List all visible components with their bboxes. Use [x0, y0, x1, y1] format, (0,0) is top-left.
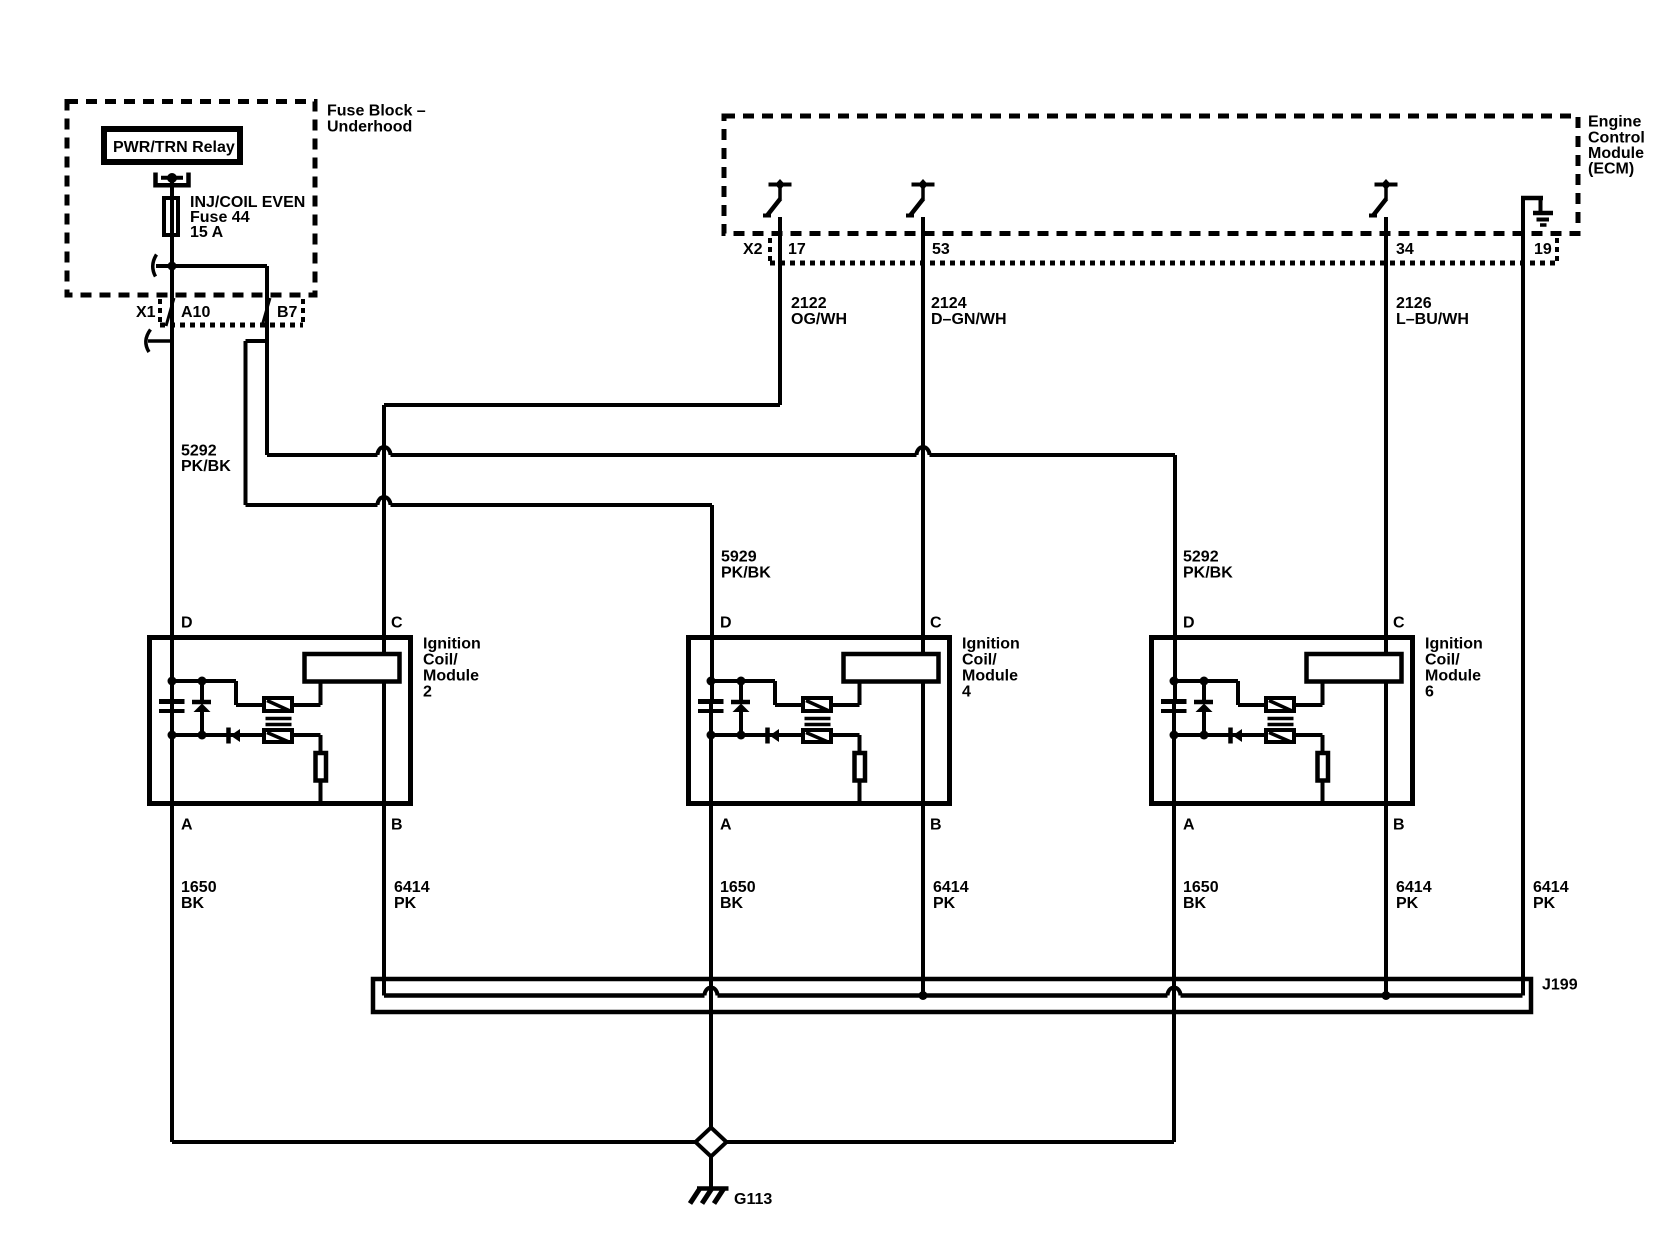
svg-text:X1: X1 — [136, 304, 156, 321]
module 4 upper driver diagonal — [806, 701, 828, 711]
wire module 2 coil to splice (6414 PK) — [382, 681, 386, 996]
wire relay to fuse — [170, 181, 174, 198]
svg-text:Module: Module — [1425, 668, 1481, 685]
module 2 lower driver box — [264, 730, 292, 742]
module 4 title — [962, 636, 1020, 701]
module 2 lower driver diagonal — [267, 733, 289, 743]
module 6 lower driver diagonal — [1269, 733, 1291, 743]
bus hop over module 4 ground wire — [705, 988, 718, 996]
svg-text:6: 6 — [1425, 684, 1434, 701]
svg-text:4: 4 — [962, 684, 971, 701]
module 4 isolation bars — [805, 719, 831, 725]
module 6 wire up to coil block — [1321, 683, 1325, 705]
svg-text:PK: PK — [1396, 895, 1419, 912]
module 4 bottom internal wire — [711, 733, 801, 737]
wire hop over 2122 (lower) — [378, 497, 391, 505]
module 6 zener diode — [1194, 679, 1213, 735]
wire hop over 2124 — [917, 447, 930, 455]
module 2 title — [423, 636, 481, 701]
wire 6414 from pin 19 down to splice pack — [1521, 198, 1525, 996]
module 2 capacitor — [159, 702, 185, 712]
connector X2 strip dotted bottom — [770, 261, 1557, 266]
svg-text:Module: Module — [423, 668, 479, 685]
svg-text:Coil/: Coil/ — [1425, 652, 1460, 669]
module 4 capacitor — [698, 702, 724, 712]
module 6 internal D/A line lower — [1172, 713, 1176, 804]
svg-text:PK/BK: PK/BK — [721, 565, 771, 582]
module 6 junction dot zener bottom — [1200, 731, 1209, 740]
module 4 lower driver diagonal — [806, 733, 828, 743]
module 6 bottom internal wire — [1174, 733, 1264, 737]
wire B7 down to 5292 branch — [265, 266, 269, 455]
wire 1650 module 2 pin A down to ground run — [170, 699, 174, 1142]
module 2 coil winding block — [305, 654, 400, 682]
ignition coil/module 4 box — [689, 638, 950, 804]
svg-text:A: A — [181, 817, 193, 834]
module 4 junction dot bottom-left — [707, 731, 716, 740]
svg-text:17: 17 — [788, 241, 806, 258]
module 2 diode — [229, 728, 241, 744]
wire 5929 horizontal run to module 4 D — [246, 503, 378, 507]
module 4 wire up to coil block — [858, 683, 862, 705]
terminal slash at pin B7 — [262, 298, 270, 326]
svg-text:X2: X2 — [743, 241, 763, 258]
junction dot below fuse — [168, 262, 177, 271]
module 4 junction dot zener top — [737, 677, 746, 686]
bus hop over module 6 ground wire — [1168, 988, 1181, 996]
wire 5292 down to module 6 pin D (upper) — [1173, 455, 1177, 699]
module 2 junction dot zener bottom — [198, 731, 207, 740]
module 6 wire upper driver to coil — [1296, 703, 1323, 707]
svg-text:2: 2 — [423, 684, 432, 701]
ignition coil/module 6 box — [1152, 638, 1413, 804]
module 4 step wire down — [773, 681, 777, 705]
module 6 capacitor — [1161, 702, 1187, 712]
wire fuse to junction (passes through fuse) — [170, 198, 174, 266]
module 6 upper driver box — [1266, 698, 1294, 711]
module 4 junction dot zener bottom — [737, 731, 746, 740]
svg-text:6414: 6414 — [1533, 879, 1569, 896]
wire 5929 branch down — [244, 341, 248, 505]
svg-text:Fuse Block –: Fuse Block – — [327, 103, 426, 120]
module 2 top internal wire — [172, 679, 236, 683]
module 4 zener diode — [731, 679, 750, 735]
module 4 junction dot D-top-left — [707, 677, 716, 686]
module 6 upper driver diagonal — [1269, 701, 1291, 711]
svg-text:Ignition: Ignition — [1425, 636, 1483, 653]
wire B7 jog branch — [246, 339, 268, 343]
module 4 top internal wire — [711, 679, 775, 683]
module 2 junction dot D-top-left — [168, 677, 177, 686]
module 6 lower driver box — [1266, 730, 1294, 742]
wire A10 down to module 2 pin D (upper) — [170, 266, 174, 699]
svg-text:C: C — [391, 615, 403, 632]
svg-text:Ignition: Ignition — [423, 636, 481, 653]
module 4 lower driver box — [803, 730, 831, 742]
bus junction dot module 4 B — [919, 991, 928, 1000]
svg-text:6414: 6414 — [1396, 879, 1432, 896]
engine control module (ECM) dashed box — [724, 116, 1578, 234]
module 2 upper driver box — [264, 698, 292, 711]
svg-text:A10: A10 — [181, 304, 210, 321]
module 2 wire to resistor — [319, 735, 323, 753]
relay output terminal symbol — [156, 173, 189, 186]
svg-text:Coil/: Coil/ — [423, 652, 458, 669]
terminal clip at junction wire end — [153, 255, 157, 277]
wire hop over 2122 — [378, 447, 391, 455]
module 6 junction dot zener top — [1200, 677, 1209, 686]
splice pack J199 outline — [373, 979, 1531, 1012]
ground run wire left — [172, 1140, 696, 1144]
wire 5292 horizontal run to module 6 D — [267, 453, 378, 457]
svg-text:B: B — [1393, 817, 1405, 834]
module 2 junction dot zener top — [198, 677, 207, 686]
svg-text:G113: G113 — [734, 1191, 772, 1208]
svg-text:A: A — [720, 817, 732, 834]
wire 1650 module 6 pin A down to ground run — [1172, 699, 1176, 1142]
module 6 junction dot D-top-left — [1170, 677, 1179, 686]
connector X2 strip left edge — [768, 238, 772, 263]
svg-text:Engine: Engine — [1588, 114, 1641, 131]
svg-text:Ignition: Ignition — [962, 636, 1020, 653]
svg-text:5292: 5292 — [181, 443, 217, 460]
terminal slash at pin A10 — [166, 298, 174, 326]
wire 2122 horizontal — [384, 403, 780, 407]
connector X1 strip right edge — [301, 299, 305, 325]
PWR/TRN Relay box — [104, 129, 240, 162]
svg-text:2122: 2122 — [791, 295, 827, 312]
module 6 diode — [1231, 728, 1243, 744]
module 2 bottom internal wire — [172, 733, 262, 737]
ECM driver for pin 34 — [1369, 179, 1398, 216]
module 6 top internal wire — [1174, 679, 1238, 683]
module 2 zener diode — [192, 679, 211, 735]
splice pack J199 internal bus — [384, 993, 705, 998]
module 2 isolation bars — [266, 719, 292, 725]
module 4 wire into upper driver — [775, 703, 801, 707]
module 6 coil winding block — [1307, 654, 1402, 682]
bus junction dot module 6 B — [1382, 991, 1391, 1000]
svg-text:19: 19 — [1534, 241, 1552, 258]
svg-text:PK: PK — [394, 895, 417, 912]
svg-text:PK: PK — [933, 895, 956, 912]
module 4 wire upper driver to coil — [833, 703, 860, 707]
svg-text:5292: 5292 — [1183, 549, 1219, 566]
ground run wire right — [727, 1140, 1175, 1144]
module 2 junction dot bottom-left — [168, 731, 177, 740]
svg-text:A: A — [1183, 817, 1195, 834]
svg-text:PWR/TRN Relay: PWR/TRN Relay — [113, 139, 235, 156]
wire 1650 module 4 pin A down to ground diamond — [709, 699, 713, 1128]
ground symbol G113 — [690, 1189, 729, 1204]
svg-text:D: D — [1183, 615, 1195, 632]
svg-text:6414: 6414 — [933, 879, 969, 896]
svg-text:OG/WH: OG/WH — [791, 311, 847, 328]
module 6 wire to resistor — [1321, 735, 1325, 753]
svg-text:BK: BK — [720, 895, 744, 912]
svg-text:Coil/: Coil/ — [962, 652, 997, 669]
svg-text:(ECM): (ECM) — [1588, 161, 1634, 178]
wire 2122 from pin 17 down — [778, 217, 782, 405]
module 6 step wire down — [1236, 681, 1240, 705]
svg-text:53: 53 — [932, 241, 950, 258]
wire module 4 coil to splice (6414 PK) — [921, 681, 925, 996]
terminal clip below pin A10 — [146, 330, 151, 353]
clip tick to A10 wire — [148, 339, 170, 343]
svg-text:Module: Module — [962, 668, 1018, 685]
connector X1 strip left edge — [158, 299, 162, 325]
svg-text:2126: 2126 — [1396, 295, 1432, 312]
svg-text:D–GN/WH: D–GN/WH — [931, 311, 1007, 328]
svg-text:B: B — [930, 817, 942, 834]
module 4 coil winding block — [844, 654, 939, 682]
svg-text:C: C — [930, 615, 942, 632]
svg-text:15 A: 15 A — [190, 224, 224, 241]
module 2 wire up to coil block — [319, 683, 323, 705]
relay terminal dot — [167, 173, 177, 183]
module 2 resistor to case — [319, 781, 323, 805]
module 6 wire into upper driver — [1238, 703, 1264, 707]
svg-text:D: D — [720, 615, 732, 632]
ignition coil/module 2 box — [150, 638, 411, 804]
module 2 step wire down — [234, 681, 238, 705]
module 4 resistor — [855, 753, 866, 781]
svg-text:6414: 6414 — [394, 879, 430, 896]
svg-text:J199: J199 — [1542, 977, 1578, 994]
module 6 junction dot bottom-left — [1170, 731, 1179, 740]
svg-text:C: C — [1393, 615, 1405, 632]
svg-text:L–BU/WH: L–BU/WH — [1396, 311, 1469, 328]
svg-text:2124: 2124 — [931, 295, 967, 312]
svg-text:B7: B7 — [277, 304, 298, 321]
module 2 upper driver diagonal — [267, 701, 289, 711]
wire 2124 from pin 53 down to module 4 pin C — [921, 217, 925, 654]
module 6 resistor — [1318, 753, 1329, 781]
svg-text:B: B — [391, 817, 403, 834]
fuse block - underhood dashed box — [67, 102, 315, 296]
module 6 resistor to case — [1321, 781, 1325, 805]
svg-text:34: 34 — [1396, 241, 1414, 258]
ECM driver for pin 53 — [906, 179, 935, 216]
ECM driver for pin 17 — [763, 179, 792, 216]
wire 2126 from pin 34 down to module 6 pin C — [1384, 217, 1388, 654]
module 4 wire to resistor — [858, 735, 862, 753]
svg-text:Module: Module — [1588, 145, 1644, 162]
module 4 internal D/A line lower — [709, 713, 713, 804]
svg-text:5929: 5929 — [721, 549, 757, 566]
wire 5929 down to module 4 pin D (upper) — [710, 505, 714, 699]
fuse F44 body — [164, 198, 178, 235]
connector X1 strip dotted bottom — [160, 323, 303, 328]
module 4 diode — [768, 728, 780, 744]
svg-text:1650: 1650 — [720, 879, 756, 896]
svg-text:Control: Control — [1588, 130, 1645, 147]
module 6 title — [1425, 636, 1483, 701]
module 2 wire upper driver to coil — [294, 703, 321, 707]
svg-text:BK: BK — [1183, 895, 1207, 912]
module 2 internal D/A line lower — [170, 713, 174, 804]
svg-text:1650: 1650 — [1183, 879, 1219, 896]
module 2 wire lower driver out — [294, 733, 321, 737]
svg-text:BK: BK — [181, 895, 205, 912]
wire module 6 coil to splice (6414 PK) — [1384, 681, 1388, 996]
module 4 upper driver box — [803, 698, 831, 711]
module 4 resistor to case — [858, 781, 862, 805]
svg-text:PK: PK — [1533, 895, 1556, 912]
module 4 wire lower driver out — [833, 733, 860, 737]
svg-text:1650: 1650 — [181, 879, 217, 896]
ECM internal ground for pin 19 — [1521, 198, 1553, 225]
wire junction to B7 branch — [156, 264, 267, 268]
svg-text:Underhood: Underhood — [327, 119, 412, 136]
module 2 wire into upper driver — [236, 703, 262, 707]
module 6 wire lower driver out — [1296, 733, 1323, 737]
module 2 resistor — [316, 753, 327, 781]
svg-text:PK/BK: PK/BK — [181, 458, 231, 475]
svg-text:PK/BK: PK/BK — [1183, 565, 1233, 582]
wire 2122 down to module 2 pin C — [382, 405, 386, 654]
ground splice diamond — [696, 1128, 727, 1157]
module 6 isolation bars — [1268, 719, 1294, 725]
connector X2 strip right edge — [1555, 238, 1559, 263]
wire diamond to ground G113 — [709, 1157, 713, 1189]
svg-text:D: D — [181, 615, 193, 632]
